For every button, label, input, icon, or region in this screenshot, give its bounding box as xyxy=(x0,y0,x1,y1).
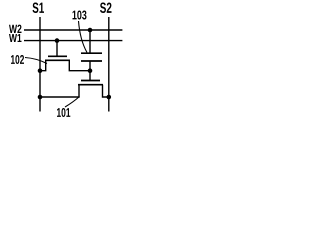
label 101 xyxy=(57,108,70,117)
capacitor C103 bottom plate xyxy=(81,60,102,62)
junction dot on S1 at Q102 source xyxy=(38,68,43,73)
word line W1 (horizontal wire) xyxy=(24,40,122,42)
junction dot on W1 at Q102 gate xyxy=(55,38,60,43)
wire: Q101 drain to S2 xyxy=(103,85,109,97)
junction dot on W2 at capacitor stub xyxy=(88,28,93,33)
wire: capacitor C103 top plate to W2 xyxy=(89,30,91,53)
label 103 xyxy=(73,11,87,20)
label W1 xyxy=(9,34,22,42)
bit line S2 (vertical wire) xyxy=(108,17,110,112)
label S1 xyxy=(33,3,45,14)
leader line for label 102 xyxy=(25,58,47,64)
word line W2 (horizontal wire) xyxy=(24,29,122,31)
wire: Q102 source to S1 xyxy=(40,60,46,70)
leader line for label 103 xyxy=(79,21,88,53)
junction dot on S1 at Q101 source xyxy=(38,95,43,100)
label S2 xyxy=(100,3,112,14)
wire: Q102 drain to node FN xyxy=(69,60,90,70)
wire: Q101 source to S1 xyxy=(40,85,79,97)
junction dot node FN xyxy=(88,68,93,73)
label 102 xyxy=(11,55,24,64)
transistor Q101 gate bar xyxy=(81,80,100,82)
leader line for label 101 xyxy=(65,97,80,108)
transistor Q101 channel bar xyxy=(78,84,103,86)
wire: capacitor C103 bottom plate to node FN and gate of Q101 xyxy=(89,61,91,81)
bit line S1 (vertical wire) xyxy=(39,17,41,112)
transistor Q102 channel bar xyxy=(45,59,70,61)
transistor Q102 gate bar xyxy=(48,55,67,57)
junction dot on S2 at Q101 drain xyxy=(107,95,112,100)
capacitor C103 top plate xyxy=(81,52,102,54)
label W2 xyxy=(9,25,22,33)
wire: gate of Q102 to W1 xyxy=(56,41,58,56)
